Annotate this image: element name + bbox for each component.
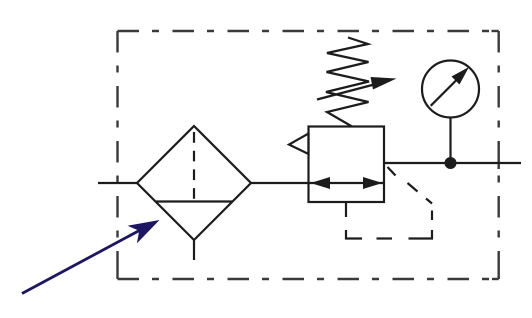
pressure gauge G1 (dial) xyxy=(422,61,479,118)
pilot feedback line (dashed segments) xyxy=(346,167,432,239)
water trap chord xyxy=(156,200,232,202)
filter element (dashed center line) xyxy=(193,132,195,202)
node: outlet junction xyxy=(445,157,457,169)
wire: inlet pipe xyxy=(98,182,137,184)
wire: pipe filter to regulator xyxy=(251,182,309,184)
regulator R1 (body) xyxy=(309,127,385,203)
adjustment arrow xyxy=(317,77,397,100)
spring (adjustment) xyxy=(326,38,369,127)
annotation arrow (blue callout) xyxy=(22,220,160,294)
filter F1 (diamond body) xyxy=(137,126,251,240)
drain stub xyxy=(193,240,195,260)
flow path double arrow xyxy=(309,177,384,189)
wire: outlet pipe xyxy=(384,162,521,164)
wire: gauge stem xyxy=(449,118,451,164)
gauge needle xyxy=(431,67,469,106)
enclosure border (dash-dot box) xyxy=(118,31,499,279)
relief vent triangle xyxy=(289,134,309,155)
